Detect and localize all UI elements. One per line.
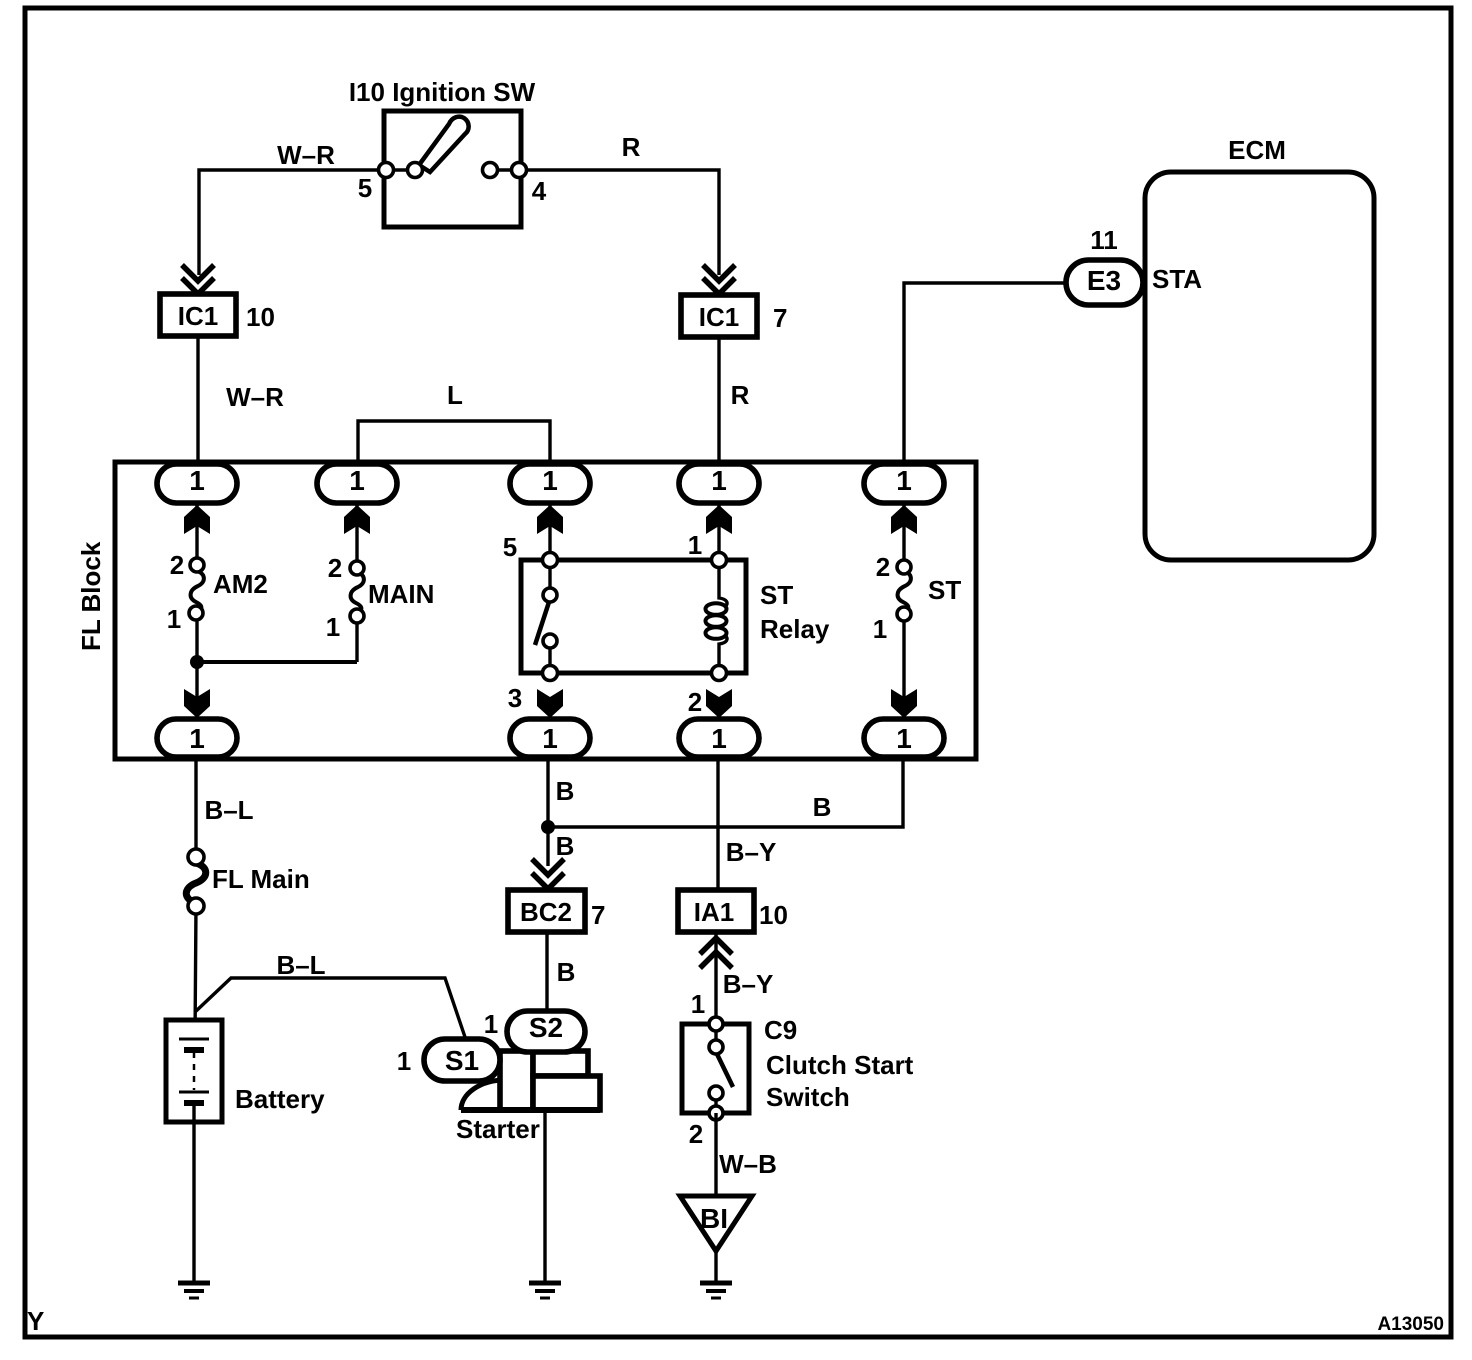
wire BI to ground <box>714 1251 717 1283</box>
svg-text:B: B <box>557 957 576 987</box>
svg-text:7: 7 <box>591 900 605 930</box>
arrow down into ST bottom oval <box>891 689 917 718</box>
svg-text:3: 3 <box>508 683 522 713</box>
wire B from BC2 to S2 <box>545 932 548 1011</box>
svg-text:10: 10 <box>759 900 788 930</box>
svg-text:B: B <box>813 792 832 822</box>
arrow up into relay-1 output oval <box>706 505 732 534</box>
pin circle ST 1 <box>897 607 911 621</box>
svg-text:1: 1 <box>189 465 205 496</box>
C9 lower contact circle <box>709 1086 723 1100</box>
svg-text:1: 1 <box>542 465 558 496</box>
ignition switch I10 box <box>384 111 521 227</box>
svg-text:1: 1 <box>542 723 558 754</box>
connector IC1 right <box>681 295 757 337</box>
connector IA1 <box>678 890 754 932</box>
svg-text:BC2: BC2 <box>520 897 572 927</box>
connector oval 1 (ST top) <box>864 464 944 503</box>
svg-text:ST: ST <box>760 580 793 610</box>
ground connector BI triangle <box>680 1196 752 1251</box>
C9 upper contact circle <box>709 1040 723 1054</box>
connector S1 <box>424 1039 500 1081</box>
svg-text:2: 2 <box>876 552 890 582</box>
svg-text:R: R <box>622 132 641 162</box>
wire battery to ground <box>192 1103 195 1283</box>
svg-text:E3: E3 <box>1087 265 1121 296</box>
svg-text:B: B <box>556 776 575 806</box>
pin circle MAIN 2 <box>350 561 364 575</box>
relay pin 3 circle <box>543 666 558 681</box>
svg-text:Clutch Start: Clutch Start <box>766 1050 914 1080</box>
wire W-R from IC1 to FL block <box>196 336 199 466</box>
C9 pin 1 circle <box>709 1017 723 1031</box>
arrow up into ST output oval <box>891 505 917 534</box>
ground (starter) <box>529 1281 561 1286</box>
svg-text:MAIN: MAIN <box>368 579 434 609</box>
wire B-L from FL block to battery <box>195 757 196 1039</box>
pin circle AM2 2 <box>190 558 204 572</box>
svg-text:AM2: AM2 <box>213 569 268 599</box>
wire from AM2 junction to MAIN <box>197 660 357 664</box>
relay coil wire <box>719 560 727 673</box>
svg-text:1: 1 <box>397 1046 411 1076</box>
wire L loop from MAIN to relay column <box>358 421 550 466</box>
connector BC2 <box>508 890 585 932</box>
C9 pin 2 circle <box>709 1106 723 1120</box>
relay pin 2 circle <box>712 666 727 681</box>
connector oval 1 (relay-2 bottom) <box>679 719 759 757</box>
ST relay box <box>521 560 746 673</box>
wire B-L branch to starter S1 <box>195 978 466 1040</box>
wire ST fuse column <box>902 485 905 719</box>
arrow down into relay-3 bottom oval <box>537 689 563 718</box>
svg-text:ECM: ECM <box>1228 135 1286 165</box>
fusible link FL Main squiggle <box>186 863 206 903</box>
connector oval 1 (AM2 bottom) <box>157 719 237 757</box>
svg-text:4: 4 <box>532 176 547 206</box>
starter solenoid rect <box>500 1051 533 1110</box>
connector arrow into BC2 <box>532 859 564 889</box>
battery plates <box>179 1038 209 1041</box>
svg-text:Relay: Relay <box>760 614 830 644</box>
arrow down into relay-2 bottom oval <box>706 689 732 718</box>
ignition terminal 5 <box>379 163 394 178</box>
relay switch wire top <box>548 560 551 590</box>
wire B to ST fuse output <box>548 757 903 827</box>
wire R from IC1 to FL block <box>717 337 720 466</box>
svg-text:IC1: IC1 <box>699 302 739 332</box>
svg-text:A13050: A13050 <box>1377 1314 1444 1335</box>
C9 switch arm <box>717 1054 733 1087</box>
connector arrow into IA1 <box>700 938 732 968</box>
wire W-R from ignition pin 5 to IC1 <box>199 170 415 275</box>
svg-text:S1: S1 <box>445 1045 479 1076</box>
relay pin 1 circle <box>712 553 727 568</box>
fuse MAIN squiggle <box>351 572 364 612</box>
connector oval 1 (MAIN top) <box>317 464 397 503</box>
svg-text:1: 1 <box>688 530 702 560</box>
connector oval 1 (ST bottom) <box>864 719 944 757</box>
starter upper right rect <box>533 1051 588 1076</box>
svg-text:ST: ST <box>928 575 961 605</box>
svg-text:Battery: Battery <box>235 1084 325 1114</box>
svg-text:S2: S2 <box>529 1012 563 1043</box>
ignition switch lever <box>419 117 469 172</box>
arrow up into relay-5 output oval <box>537 505 563 534</box>
C9 switch wire <box>714 1024 717 1113</box>
relay switch upper contact circle <box>543 588 557 602</box>
svg-text:1: 1 <box>349 465 365 496</box>
wire ST relay coil column <box>717 485 720 561</box>
fuse AM2 squiggle <box>191 571 204 611</box>
svg-text:IA1: IA1 <box>694 897 734 927</box>
svg-text:Starter: Starter <box>456 1114 540 1144</box>
wire B-Y from IA1 to clutch switch <box>714 932 717 1024</box>
svg-text:L: L <box>447 380 463 410</box>
connector E3 <box>1066 260 1143 305</box>
arrow up into AM2 output oval <box>184 505 210 534</box>
svg-text:1: 1 <box>167 604 181 634</box>
svg-text:5: 5 <box>503 532 517 562</box>
svg-text:1: 1 <box>896 723 912 754</box>
svg-text:1: 1 <box>484 1009 498 1039</box>
svg-text:R: R <box>731 380 750 410</box>
relay switch wire bottom <box>548 646 551 673</box>
relay switch lower contact circle <box>543 634 557 648</box>
wire starter to ground <box>543 1112 546 1283</box>
connector IC1 left <box>160 294 236 336</box>
FL Block box <box>115 462 976 759</box>
wire B from FL block to BC2 <box>546 761 549 866</box>
svg-text:I10 Ignition SW: I10 Ignition SW <box>349 77 536 107</box>
svg-text:1: 1 <box>189 723 205 754</box>
wire MAIN column <box>355 485 358 662</box>
svg-text:BI: BI <box>700 1203 728 1234</box>
wire AM2 column <box>195 485 198 719</box>
junction dot <box>190 655 204 669</box>
connector arrow into IC1 right <box>703 265 735 294</box>
svg-text:C9: C9 <box>764 1015 797 1045</box>
svg-text:B–L: B–L <box>276 950 325 980</box>
svg-text:B–L: B–L <box>204 795 253 825</box>
svg-text:B–Y: B–Y <box>726 837 777 867</box>
FL Main lower circle <box>188 898 204 914</box>
svg-text:1: 1 <box>873 614 887 644</box>
svg-text:5: 5 <box>358 173 372 203</box>
svg-text:2: 2 <box>170 550 184 580</box>
FL Main upper circle <box>188 849 204 865</box>
svg-text:W–B: W–B <box>719 1149 777 1179</box>
svg-text:2: 2 <box>689 1119 703 1149</box>
svg-text:11: 11 <box>1090 225 1118 255</box>
wire W-B from C9 to BI <box>714 1113 717 1196</box>
relay coil loops <box>706 603 727 639</box>
svg-text:7: 7 <box>773 303 787 333</box>
pin circle MAIN 1 <box>350 609 364 623</box>
svg-text:IC1: IC1 <box>178 301 218 331</box>
svg-text:1: 1 <box>711 723 727 754</box>
ground (battery) <box>178 1281 210 1286</box>
wire R from ignition pin 4 to IC1 <box>490 170 719 275</box>
connector oval 1 (relay-5 top) <box>510 464 590 503</box>
svg-text:10: 10 <box>246 302 275 332</box>
relay pin 5 circle <box>543 553 558 568</box>
ignition terminal pivot <box>408 163 423 178</box>
svg-text:W–R: W–R <box>277 140 335 170</box>
wire from FL block ST output to ECM E3 <box>904 283 1066 466</box>
svg-text:B: B <box>556 831 575 861</box>
svg-text:1: 1 <box>691 989 705 1019</box>
svg-text:FL Main: FL Main <box>212 864 310 894</box>
battery box <box>166 1020 222 1122</box>
ignition terminal contact <box>483 163 498 178</box>
svg-text:1: 1 <box>711 465 727 496</box>
svg-text:STA: STA <box>1152 264 1202 294</box>
svg-text:1: 1 <box>326 612 340 642</box>
ECM box <box>1145 172 1374 560</box>
wire B-Y from FL block to IA1 <box>716 761 719 890</box>
connector S2 <box>507 1011 585 1052</box>
svg-text:2: 2 <box>688 687 702 717</box>
connector oval 1 (relay-1 top) <box>679 464 759 503</box>
wire ST relay switch column <box>548 485 551 561</box>
arrow down into AM2 bottom oval <box>184 689 210 718</box>
ignition terminal 4 <box>512 163 527 178</box>
starter nose quarter ellipse <box>461 1080 505 1110</box>
arrow up into MAIN output oval <box>344 505 370 534</box>
fuse ST squiggle <box>898 571 911 611</box>
pin circle ST 2 <box>897 560 911 574</box>
junction dot B <box>541 820 555 834</box>
starter lower right rect <box>533 1076 600 1110</box>
clutch start switch C9 box <box>682 1024 749 1113</box>
svg-text:FL Block: FL Block <box>76 541 106 651</box>
relay switch arm <box>535 602 549 645</box>
svg-text:2: 2 <box>328 553 342 583</box>
connector oval 1 (relay-3 bottom) <box>510 719 590 757</box>
connector arrow into IC1 left <box>182 265 214 294</box>
pin circle AM2 1 <box>189 606 203 620</box>
svg-text:B–Y: B–Y <box>723 969 774 999</box>
ground (BI) <box>700 1281 732 1286</box>
svg-text:Switch: Switch <box>766 1082 850 1112</box>
svg-text:1: 1 <box>896 465 912 496</box>
connector oval 1 (AM2 top) <box>157 464 237 503</box>
svg-text:W–R: W–R <box>226 382 284 412</box>
svg-text:Y: Y <box>27 1306 44 1336</box>
starter bottom line <box>461 1107 600 1113</box>
